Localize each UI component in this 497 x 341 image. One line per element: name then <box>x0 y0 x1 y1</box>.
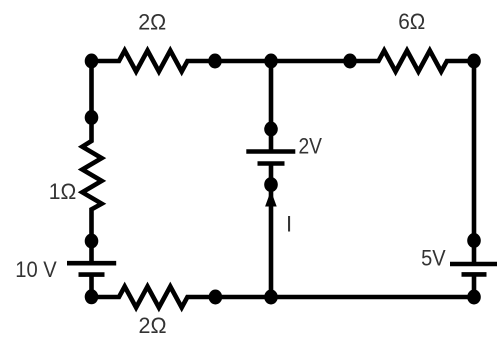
svg-text:2Ω: 2Ω <box>138 10 166 35</box>
svg-text:2Ω: 2Ω <box>139 313 167 338</box>
svg-text:2V: 2V <box>298 134 322 159</box>
svg-text:10 V: 10 V <box>15 257 57 282</box>
svg-text:6Ω: 6Ω <box>398 9 425 34</box>
svg-text:5V: 5V <box>421 246 446 271</box>
svg-text:I: I <box>286 211 292 236</box>
svg-text:1Ω: 1Ω <box>49 179 77 204</box>
